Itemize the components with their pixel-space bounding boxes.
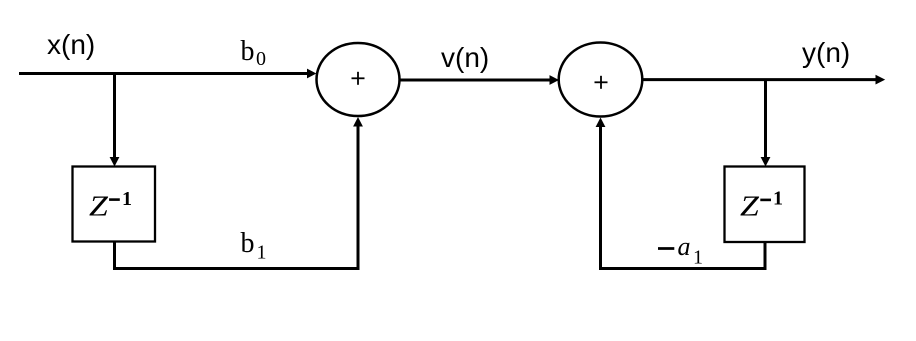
svg-text:Z: Z [740,190,760,222]
wire input x(n) [19,69,316,79]
value label -a1 [658,232,703,268]
summer U1 [317,43,400,116]
node y(n) label [802,37,850,68]
wire branch down to right delay [761,80,771,167]
wire feedback b1 path [115,117,363,269]
svg-text:y(n): y(n) [802,37,850,68]
svg-text:1: 1 [122,188,132,210]
svg-text:Z: Z [89,190,109,222]
wire feedback -a1 path [596,118,765,269]
value label b1 [241,228,267,264]
node x(n) label [47,29,95,60]
delay block Z^-1 left [73,167,156,242]
wire v(n) between summers [400,75,560,85]
svg-text:v(n): v(n) [441,42,489,73]
wire output y(n) [642,75,885,85]
delay block Z^-1 right [725,167,805,243]
value label b0 [241,36,267,70]
svg-text:a: a [678,232,691,261]
svg-text:1: 1 [773,188,783,210]
node v(n) label [441,42,489,73]
svg-text:1: 1 [693,246,703,268]
svg-text:x(n): x(n) [47,29,95,60]
summer U2 [559,43,643,117]
wire branch down to left delay [110,74,120,167]
